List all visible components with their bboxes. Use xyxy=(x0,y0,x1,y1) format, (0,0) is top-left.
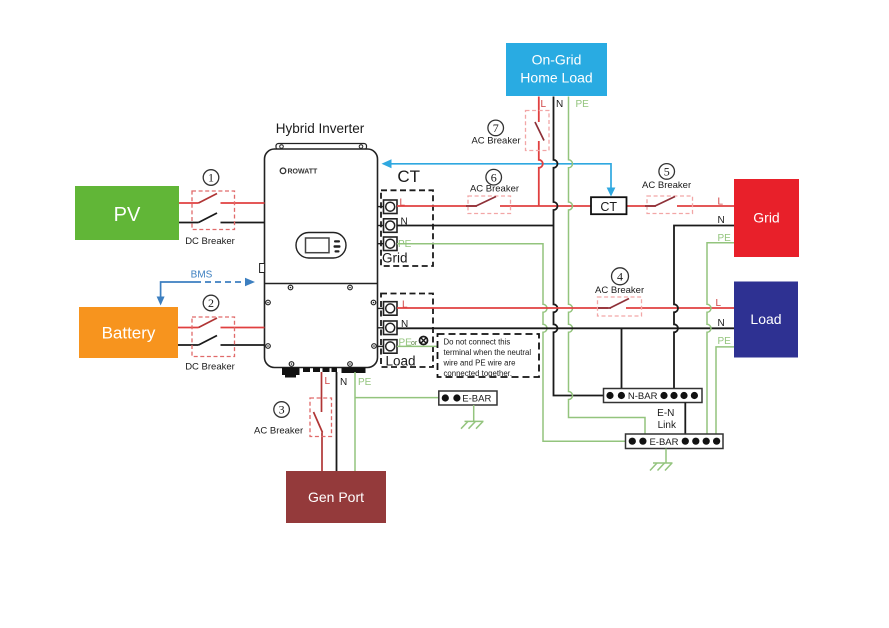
wire PV L red xyxy=(179,194,265,204)
wire Grid PE from inverter xyxy=(397,244,626,442)
note box xyxy=(438,334,540,378)
On-Grid Home Load box xyxy=(506,43,607,96)
wire Load N black xyxy=(397,327,734,329)
svg-text:PE: PE xyxy=(718,233,732,244)
Grid terminal group dashed box xyxy=(381,190,433,266)
breaker DC 1 xyxy=(185,170,235,247)
wire Grid box PE xyxy=(707,243,734,434)
Gen Port box xyxy=(286,471,386,523)
wire Load L red xyxy=(397,307,734,309)
terminal Load L xyxy=(384,302,398,316)
inverter terminal stubs xyxy=(378,207,384,347)
svg-text:Battery: Battery xyxy=(102,324,156,343)
svg-text:Do not connect this: Do not connect this xyxy=(444,338,511,347)
breaker AC 4 xyxy=(595,268,644,316)
wire inverter L to gen xyxy=(314,372,323,471)
svg-text:N: N xyxy=(340,377,347,388)
svg-text:N: N xyxy=(718,215,725,226)
svg-text:AC Breaker: AC Breaker xyxy=(471,136,520,147)
svg-text:4: 4 xyxy=(617,270,623,284)
breaker AC 6 xyxy=(466,169,519,213)
svg-text:N: N xyxy=(556,99,563,110)
svg-text:2: 2 xyxy=(208,296,214,310)
wire inverter PE to gen xyxy=(354,372,356,471)
wire OnGrid L vertical xyxy=(539,97,543,207)
svg-text:Link: Link xyxy=(658,420,677,431)
svg-text:PE: PE xyxy=(358,377,372,388)
E-N Link wire xyxy=(684,403,686,435)
wire Battery L red xyxy=(178,318,265,328)
wire Battery N black xyxy=(178,336,265,346)
svg-text:DC Breaker: DC Breaker xyxy=(185,362,235,373)
inverter U1 body xyxy=(260,144,378,368)
Battery box xyxy=(79,307,178,358)
svg-text:wire and PE wire are: wire and PE wire are xyxy=(443,359,516,368)
ground under E-BAR main xyxy=(650,449,673,471)
svg-text:Home Load: Home Load xyxy=(520,70,592,86)
svg-text:AC Breaker: AC Breaker xyxy=(254,426,303,437)
svg-text:PE: PE xyxy=(576,99,590,110)
wire PV N black xyxy=(179,213,265,223)
svg-text:N: N xyxy=(718,318,725,329)
wire Grid box N xyxy=(674,226,734,397)
terminal Grid N xyxy=(384,219,398,233)
label Load PE or X xyxy=(399,337,428,349)
svg-text:Grid: Grid xyxy=(753,210,779,226)
svg-text:DC Breaker: DC Breaker xyxy=(185,236,235,247)
svg-text:5: 5 xyxy=(664,165,670,179)
svg-text:BMS: BMS xyxy=(191,270,213,281)
terminal Grid PE xyxy=(384,237,398,251)
svg-text:Hybrid Inverter: Hybrid Inverter xyxy=(276,121,365,136)
inverter logo GROWATT xyxy=(280,168,318,176)
ground under E-BAR small xyxy=(461,405,484,429)
svg-text:E-BAR: E-BAR xyxy=(462,394,491,405)
inverter divider xyxy=(265,283,378,285)
svg-text:Grid: Grid xyxy=(382,251,408,266)
svg-text:Load: Load xyxy=(750,311,781,327)
svg-text:AC Breaker: AC Breaker xyxy=(595,285,644,296)
terminal Load N xyxy=(384,321,398,335)
svg-text:L: L xyxy=(541,99,547,110)
svg-text:terminal when the neutral: terminal when the neutral xyxy=(444,348,532,357)
BMS arrow xyxy=(157,270,255,306)
terminal Load PE xyxy=(384,340,398,354)
wire OnGrid PE vertical xyxy=(569,97,646,435)
inverter display xyxy=(296,233,346,259)
Grid box xyxy=(734,179,799,257)
Load terminal group dashed box xyxy=(381,294,433,369)
blue CT sense line xyxy=(382,159,616,196)
svg-text:3: 3 xyxy=(279,403,285,417)
wire Grid N from inverter xyxy=(397,225,554,227)
Load box xyxy=(734,282,798,358)
svg-text:PV: PV xyxy=(114,204,141,226)
wire Load N drop to N-BAR xyxy=(621,328,623,396)
svg-text:E-N: E-N xyxy=(657,408,674,419)
breaker AC 7 xyxy=(471,111,549,151)
svg-text:PE: PE xyxy=(718,336,732,347)
wire OnGrid N vertical xyxy=(554,97,604,396)
svg-text:Load: Load xyxy=(386,354,416,369)
inverter bottom connectors xyxy=(282,368,366,378)
N-BAR xyxy=(604,389,703,403)
svg-text:L: L xyxy=(718,197,724,208)
svg-text:Gen Port: Gen Port xyxy=(308,489,364,505)
svg-text:L: L xyxy=(716,298,722,309)
svg-text:On-Grid: On-Grid xyxy=(532,52,582,68)
svg-text:PE: PE xyxy=(398,239,412,250)
wire Load PE stub xyxy=(397,345,438,347)
breaker AC 5 xyxy=(642,164,692,214)
svg-text:E-BAR: E-BAR xyxy=(649,437,678,448)
inverter screws xyxy=(266,285,377,366)
wire Grid L red horizontal xyxy=(397,205,734,207)
wire Load box PE xyxy=(716,347,734,434)
svg-text:CT: CT xyxy=(397,167,420,186)
E-BAR main xyxy=(626,434,724,449)
E-BAR small xyxy=(439,391,497,405)
svg-text:L: L xyxy=(325,376,331,387)
breaker AC 3 xyxy=(254,398,331,437)
svg-text:6: 6 xyxy=(491,170,497,184)
svg-text:1: 1 xyxy=(208,171,214,185)
svg-text:AC Breaker: AC Breaker xyxy=(470,184,519,195)
CT box on grid line xyxy=(591,197,627,214)
svg-text:connected together.: connected together. xyxy=(444,369,513,378)
breaker DC 2 xyxy=(185,295,235,372)
svg-text:AC Breaker: AC Breaker xyxy=(642,180,691,191)
PV source box xyxy=(75,186,179,240)
svg-text:7: 7 xyxy=(493,121,499,135)
wire inverter N to gen xyxy=(336,372,338,471)
svg-text:ROWATT: ROWATT xyxy=(288,169,319,176)
svg-text:N-BAR: N-BAR xyxy=(628,391,658,402)
terminal Grid L xyxy=(384,200,398,214)
wire PE branch to small E-BAR xyxy=(355,397,439,399)
svg-text:CT: CT xyxy=(600,200,617,214)
